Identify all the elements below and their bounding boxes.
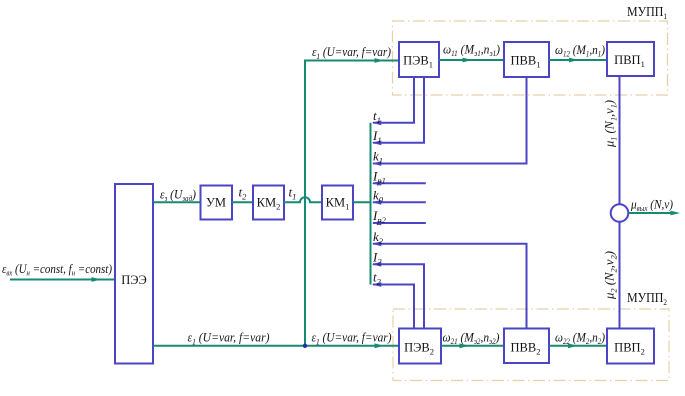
- arrowhead I1: [372, 140, 382, 145]
- wire feedback bus vertical: [370, 123, 372, 285]
- svg-text:ПВП1: ПВП1: [614, 53, 645, 69]
- wire PVV2 leg k2 to bus: [373, 244, 527, 329]
- wire PVP1 down to summing node: [619, 76, 621, 204]
- svg-text:ПВВ1: ПВВ1: [511, 54, 541, 70]
- wire PVP2 up to summing node: [619, 222, 621, 329]
- svg-text:ПЭВ1: ПЭВ1: [403, 54, 433, 70]
- svg-text:ω12 (M1,n1): ω12 (M1,n1): [555, 42, 605, 59]
- wire UM to KM2: [232, 201, 253, 203]
- block PVP1: [607, 42, 654, 76]
- block PEE: [115, 184, 153, 364]
- label k2 bus: [373, 229, 384, 246]
- arrowhead t2: [372, 282, 382, 287]
- label I2 bus: [372, 249, 382, 266]
- wire PEV2 leg I2 to bus: [373, 264, 424, 328]
- wire PVV2 to PVP2: [549, 345, 607, 347]
- wire PEV2 leg t2 to bus: [373, 285, 414, 329]
- label t2 bus: [373, 270, 382, 287]
- wire top branch to PEV1: [304, 60, 399, 62]
- dashed enclosure MUPP2: [393, 309, 669, 381]
- label omega22: [555, 330, 605, 347]
- arrowhead omega12: [569, 58, 579, 63]
- svg-text:ПВП2: ПВП2: [614, 340, 645, 356]
- svg-text:ε1 (U=var, f=var): ε1 (U=var, f=var): [312, 330, 392, 347]
- arrowhead bottom branch: [375, 343, 385, 348]
- svg-text:ПВВ2: ПВВ2: [511, 340, 541, 356]
- label Ip2 bus: [372, 208, 387, 225]
- label MUPP1: [627, 5, 667, 21]
- svg-text:ПЭВ2: ПЭВ2: [404, 340, 434, 356]
- label mu_out: [630, 197, 673, 214]
- arrowhead k1: [372, 161, 382, 166]
- block PVV1: [504, 42, 549, 77]
- label eps_z (U_zad): [160, 187, 196, 204]
- arrowhead k0: [372, 200, 382, 205]
- block KM1: [322, 186, 353, 220]
- svg-text:μвых (N,ν): μвых (N,ν): [630, 197, 673, 214]
- wire PEV1 leg I1 to bus: [373, 77, 424, 143]
- wire output from summing node: [628, 212, 673, 214]
- label t1 bus: [373, 108, 381, 125]
- wire bottom from PEE to PEV2: [153, 345, 399, 347]
- wire vertical trunk eps1: [304, 61, 306, 346]
- label eps1 top: [312, 44, 391, 61]
- block PEV2: [399, 329, 441, 364]
- arrowhead k2: [372, 241, 382, 246]
- svg-text:ω22 (M2,n2): ω22 (M2,n2): [555, 330, 605, 347]
- svg-text:УМ: УМ: [206, 195, 226, 209]
- block PEV1: [399, 42, 439, 77]
- svg-text:МУПП2: МУПП2: [627, 291, 667, 307]
- wire PEV2 to PVV2: [441, 345, 504, 347]
- arrowhead input: [92, 277, 102, 282]
- wire k0 stub to bus: [373, 201, 426, 203]
- wire PEV1 to PVV1: [439, 59, 504, 61]
- wire Ip2 stub to bus: [373, 222, 426, 224]
- label MUPP2: [627, 291, 667, 307]
- arrowhead omega11: [463, 58, 473, 63]
- label t1: [289, 185, 297, 202]
- block UM: [201, 186, 233, 220]
- label k0 bus: [373, 188, 384, 205]
- label eps1 bottom left: [188, 330, 270, 347]
- label omega12: [555, 42, 605, 59]
- wire KM1 to bus: [353, 201, 370, 203]
- wire input arrow to PEE: [10, 279, 114, 281]
- wire PVV1 leg k1 to bus: [373, 77, 527, 164]
- label omega11: [443, 42, 500, 59]
- label eps1 bottom right: [312, 330, 392, 347]
- arrowhead Ip1: [372, 181, 382, 186]
- label I1 bus: [372, 128, 382, 145]
- wire PEE to UM: [153, 201, 200, 203]
- label eps_vh input: [2, 261, 112, 278]
- junction dot bottom: [303, 344, 307, 348]
- wire KM2 to KM1 with hop over vertical: [284, 197, 322, 202]
- block PVV2: [504, 329, 549, 364]
- arrowhead output: [671, 211, 681, 216]
- svg-text:ПЭЭ: ПЭЭ: [121, 273, 147, 287]
- wire Ip1 stub to bus: [373, 182, 426, 184]
- block KM2: [253, 186, 284, 220]
- svg-text:ε1 (U=var, f=var): ε1 (U=var, f=var): [312, 44, 391, 61]
- svg-text:ε1 (U=var, f=var): ε1 (U=var, f=var): [188, 330, 270, 347]
- wire PVV1 to PVP1: [549, 59, 607, 61]
- svg-text:МУПП1: МУПП1: [627, 5, 667, 21]
- label omega21: [443, 330, 500, 347]
- label k1 bus: [373, 149, 383, 166]
- svg-text:εвх (Uн =const, fн =const): εвх (Uн =const, fн =const): [2, 261, 112, 278]
- block PVP2: [607, 329, 654, 364]
- label mu1 rotated: [602, 100, 619, 148]
- arrowhead omega22: [568, 343, 578, 348]
- dashed enclosure MUPP1: [393, 21, 668, 95]
- label mu2 rotated: [602, 251, 619, 300]
- summing node circle: [611, 204, 629, 222]
- label t2: [239, 185, 248, 202]
- arrowhead I2: [372, 262, 382, 267]
- label Ip1 bus: [372, 168, 386, 185]
- arrowhead Ip2: [372, 221, 382, 226]
- arrowhead top branch: [375, 58, 385, 63]
- wire PEV1 leg t1 to bus: [373, 77, 414, 123]
- arrowhead t1: [372, 120, 382, 125]
- arrowhead omega21: [460, 343, 470, 348]
